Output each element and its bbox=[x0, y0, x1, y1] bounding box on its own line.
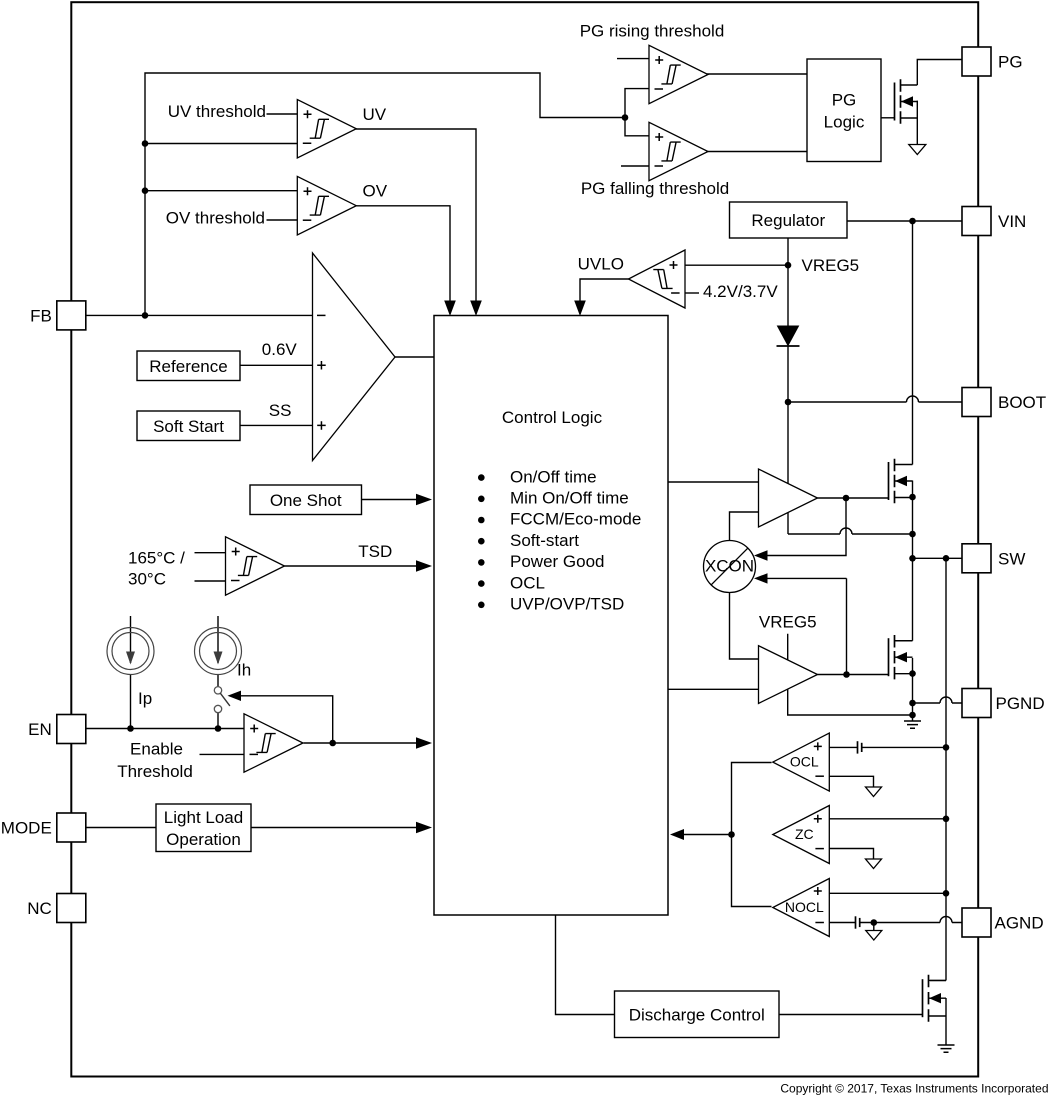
svg-text:NC: NC bbox=[27, 899, 52, 918]
svg-text:OCL: OCL bbox=[790, 753, 819, 769]
wire PG rising comparator output to PG Logic bbox=[707, 73, 807, 75]
svg-text:VREG5: VREG5 bbox=[802, 256, 860, 275]
wire NOCL + input to SW sense bbox=[829, 890, 949, 897]
wire PG falling comparator output to PG Logic bbox=[707, 151, 807, 153]
svg-text:Logic: Logic bbox=[824, 112, 865, 131]
svg-text:PGND: PGND bbox=[996, 694, 1045, 713]
transistor PG MOSFET bbox=[895, 79, 918, 123]
diode bootstrap bbox=[777, 326, 800, 346]
svg-text:Soft Start: Soft Start bbox=[153, 417, 224, 436]
comparator TSD bbox=[226, 537, 393, 596]
wire Control Logic to lower driver input bbox=[668, 688, 759, 690]
pin VIN bbox=[962, 207, 1026, 236]
svg-text:Light Load: Light Load bbox=[164, 808, 243, 827]
svg-text:UVP/OVP/TSD: UVP/OVP/TSD bbox=[510, 595, 624, 614]
node VREG5 label bbox=[802, 256, 860, 275]
wire PG falling threshold - stub bbox=[621, 165, 649, 167]
error amplifier bbox=[313, 253, 396, 461]
wire lower driver output to low-side gate and XCON lower input bbox=[754, 573, 889, 678]
wire Enable Threshold stub bbox=[200, 753, 245, 755]
svg-text:NOCL: NOCL bbox=[785, 899, 824, 915]
wire VREG5 stub and lower driver rail to PGND node bbox=[788, 634, 916, 719]
wire Regulator to VIN pin bbox=[847, 218, 962, 225]
wire Control Logic to upper driver input bbox=[668, 481, 759, 483]
box Control Logic bbox=[434, 316, 668, 916]
pin MODE bbox=[1, 813, 86, 842]
wire PG Logic to PG MOSFET gate bbox=[881, 117, 895, 119]
svg-text:BOOT: BOOT bbox=[998, 393, 1046, 412]
wire One Shot to Control Logic bbox=[362, 494, 433, 506]
box PG Logic bbox=[807, 59, 881, 162]
wire VIN to high-side MOSFET drain bbox=[912, 221, 914, 465]
wire Ip current source to EN node bbox=[126, 616, 135, 732]
wire Control Logic to Discharge Control bbox=[556, 915, 615, 1015]
wire Discharge Control to discharge MOSFET gate bbox=[779, 1014, 923, 1016]
comparator PG rising bbox=[580, 22, 725, 104]
ground PGND node bbox=[904, 721, 921, 728]
wire UV threshold stub bbox=[267, 113, 298, 115]
svg-text:EN: EN bbox=[28, 720, 52, 739]
wire SW net high-side source to SW pin and low-side drain bbox=[896, 481, 963, 641]
wire OV threshold stub bbox=[267, 219, 298, 221]
wire XCON top link to upper driver bbox=[730, 512, 759, 541]
wire discharge MOSFET source to ground bbox=[945, 998, 947, 1045]
wire MODE pin to Light Load Operation to Control Logic bbox=[86, 822, 432, 834]
pin PG bbox=[962, 47, 1023, 76]
svg-text:Soft-start: Soft-start bbox=[510, 531, 579, 550]
wire bootstrap net diode cathode to BOOT and upper driver rail bbox=[785, 346, 792, 534]
svg-text:Regulator: Regulator bbox=[751, 211, 825, 230]
wire BOOT to BOOT pin with hop over VIN line bbox=[788, 396, 962, 402]
wire Reference 0.6V to error amp + bbox=[240, 364, 313, 366]
wire OV comparator output to Control Logic bbox=[356, 206, 456, 316]
wire OCL/ZC/NOCL output bus to Control Logic bbox=[670, 763, 772, 907]
wire EN pin to EN comparator bbox=[86, 728, 244, 730]
svg-text:On/Off time: On/Off time bbox=[510, 467, 597, 486]
wire upper driver rail to SW node with hop bbox=[788, 528, 916, 537]
wire UV comparator output to Control Logic bbox=[356, 129, 482, 316]
svg-text:PG rising threshold: PG rising threshold bbox=[580, 22, 725, 41]
wire FB net from FB pin to error amp, UV/OV comparators and PG comparators bbox=[86, 73, 649, 319]
svg-text:OV: OV bbox=[363, 182, 388, 201]
wire PG MOSFET source to ground bbox=[916, 101, 918, 144]
node Enable Threshold label bbox=[117, 740, 193, 782]
svg-text:Min On/Off time: Min On/Off time bbox=[510, 489, 629, 508]
current source Ip bbox=[107, 628, 154, 709]
svg-text:TSD: TSD bbox=[358, 542, 392, 561]
XCON cross-conduction block bbox=[704, 541, 756, 593]
svg-text:Ih: Ih bbox=[237, 661, 251, 680]
wire TSD comparator stubs bbox=[195, 553, 226, 581]
wire EN comparator feedback to switch bbox=[228, 691, 337, 747]
transistor low-side MOSFET bbox=[889, 635, 913, 679]
svg-text:PG: PG bbox=[832, 90, 857, 109]
box Soft Start bbox=[137, 401, 291, 441]
comparator NOCL bbox=[773, 879, 830, 937]
wire UVLO output to Control Logic bbox=[574, 279, 629, 316]
comparator PG falling bbox=[581, 122, 729, 198]
driver upper gate buffer bbox=[759, 469, 818, 527]
svg-text:FB: FB bbox=[30, 307, 52, 326]
switch Ih enable bbox=[214, 687, 230, 713]
wire PG rising threshold + stub bbox=[617, 58, 649, 60]
svg-text:UV: UV bbox=[363, 105, 387, 124]
svg-text:VIN: VIN bbox=[998, 212, 1026, 231]
svg-text:Threshold: Threshold bbox=[117, 762, 193, 781]
driver lower gate buffer bbox=[759, 613, 818, 704]
wire discharge MOSFET drain stub bbox=[930, 980, 946, 982]
svg-text:Enable: Enable bbox=[130, 740, 183, 759]
svg-text:Ip: Ip bbox=[138, 689, 152, 708]
svg-text:Operation: Operation bbox=[166, 830, 241, 849]
wire PGND net low-side source to PGND pin with hop and ground bbox=[909, 658, 962, 721]
node 165C/30C label bbox=[128, 549, 185, 589]
svg-text:AGND: AGND bbox=[995, 914, 1044, 933]
svg-text:SW: SW bbox=[998, 550, 1025, 569]
box Discharge Control bbox=[615, 991, 780, 1038]
pin AGND bbox=[962, 908, 1044, 937]
svg-text:PG falling threshold: PG falling threshold bbox=[581, 179, 729, 198]
svg-text:UVLO: UVLO bbox=[578, 255, 624, 274]
comparator UVLO bbox=[578, 250, 685, 308]
node 4.2V/3.7V label bbox=[703, 282, 778, 301]
svg-text:0.6V: 0.6V bbox=[262, 340, 298, 359]
wire ZC + input to SW sense bbox=[829, 816, 949, 823]
svg-text:SS: SS bbox=[269, 401, 292, 420]
wire error amp output to Control Logic bbox=[395, 356, 434, 358]
svg-text:Power Good: Power Good bbox=[510, 552, 605, 571]
pin BOOT bbox=[962, 388, 1046, 417]
wire Soft Start SS to error amp + bbox=[240, 424, 313, 426]
svg-text:VREG5: VREG5 bbox=[759, 613, 817, 632]
svg-text:FCCM/Eco-mode: FCCM/Eco-mode bbox=[510, 510, 641, 529]
comparator OCL bbox=[773, 733, 830, 791]
wire VREG5 net from Regulator to UVLO and diode bbox=[685, 238, 791, 326]
wire Ih current source to switch bbox=[214, 616, 223, 732]
svg-text:4.2V/3.7V: 4.2V/3.7V bbox=[703, 282, 778, 301]
svg-text:XCON: XCON bbox=[705, 557, 754, 576]
svg-text:OV threshold: OV threshold bbox=[166, 209, 265, 228]
comparator EN bbox=[244, 714, 303, 773]
node OV threshold label bbox=[166, 209, 265, 228]
wire TSD output to Control Logic bbox=[285, 560, 433, 572]
wire XCON bottom link to lower driver bbox=[730, 593, 759, 660]
current source Ih bbox=[195, 628, 252, 680]
wire OCL + input with capacitor to SW sense bbox=[829, 741, 949, 753]
wire PG MOSFET drain to PG pin bbox=[917, 60, 962, 86]
svg-text:Control Logic: Control Logic bbox=[502, 408, 603, 427]
wire UVLO - input stub 4.2V/3.7V bbox=[685, 292, 699, 294]
node UV threshold label bbox=[168, 102, 266, 121]
comparator ZC bbox=[773, 806, 830, 864]
pin FB bbox=[30, 301, 86, 330]
svg-text:MODE: MODE bbox=[1, 819, 52, 838]
svg-text:Discharge Control: Discharge Control bbox=[629, 1005, 765, 1024]
svg-text:Reference: Reference bbox=[149, 357, 227, 376]
box Regulator bbox=[730, 202, 848, 238]
comparator OV bbox=[297, 176, 387, 235]
svg-text:30°C: 30°C bbox=[128, 570, 166, 589]
pin PGND bbox=[962, 689, 1045, 718]
copyright notice bbox=[780, 1082, 1048, 1096]
box Light Load Operation bbox=[156, 804, 251, 852]
transistor discharge MOSFET bbox=[923, 975, 947, 1022]
wire EN comparator output to Control Logic bbox=[304, 737, 433, 749]
svg-text:UV threshold: UV threshold bbox=[168, 102, 266, 121]
pin NC bbox=[27, 894, 86, 923]
svg-text:PG: PG bbox=[998, 53, 1023, 72]
pin EN bbox=[28, 715, 86, 744]
ground PG MOSFET bbox=[909, 145, 926, 155]
transistor high-side MOSFET bbox=[889, 459, 913, 503]
wire NOCL - input with capacitor to AGND pin, hop over sense line, ground bbox=[829, 916, 962, 940]
svg-text:ZC: ZC bbox=[795, 826, 814, 842]
svg-text:OCL: OCL bbox=[510, 573, 545, 592]
wire SW sense vertical to OCL/ZC/NOCL and discharge MOSFET bbox=[945, 558, 947, 980]
ground discharge MOSFET bbox=[938, 1045, 955, 1052]
wire OCL - input to ground bbox=[829, 776, 881, 796]
svg-text:One Shot: One Shot bbox=[270, 491, 342, 510]
svg-text:Copyright © 2017, Texas Instru: Copyright © 2017, Texas Instruments Inco… bbox=[780, 1082, 1048, 1096]
wire upper driver output to high-side gate and XCON upper input bbox=[754, 495, 889, 561]
svg-text:165°C /: 165°C / bbox=[128, 549, 185, 568]
wire ZC - input to ground bbox=[829, 849, 881, 869]
box One Shot bbox=[250, 485, 362, 515]
pin SW bbox=[962, 544, 1025, 573]
box Reference bbox=[137, 340, 297, 381]
comparator UV bbox=[297, 100, 386, 159]
